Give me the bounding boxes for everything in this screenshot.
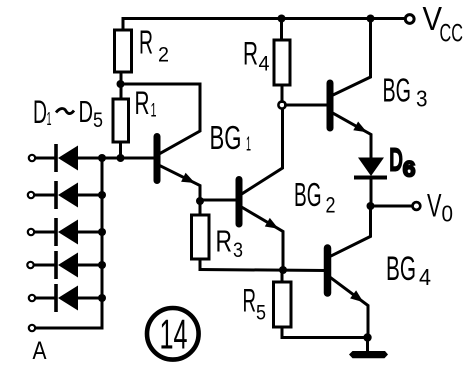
- label R2: [139, 23, 169, 66]
- resistor R4: [274, 19, 290, 102]
- wire Vo: [371, 205, 412, 208]
- svg-text:1: 1: [151, 101, 157, 122]
- label R3: [216, 224, 244, 263]
- label Vo: [427, 187, 453, 226]
- label R5: [243, 282, 267, 324]
- node ground: [363, 333, 371, 341]
- terminal Vo: [413, 202, 421, 210]
- svg-text:R: R: [243, 282, 257, 318]
- transistor BG1: [157, 137, 200, 200]
- svg-text:3: 3: [416, 86, 428, 112]
- svg-text:R: R: [243, 35, 258, 71]
- wire input A: [37, 327, 103, 330]
- svg-text:BG: BG: [210, 119, 242, 156]
- svg-text:CC: CC: [440, 20, 464, 48]
- transistor BG3: [330, 19, 371, 159]
- svg-text:6: 6: [403, 158, 415, 181]
- node BG3 collector rail: [367, 15, 375, 23]
- svg-text:4: 4: [419, 264, 431, 290]
- svg-text:2: 2: [326, 192, 336, 217]
- svg-text:1: 1: [47, 109, 52, 129]
- svg-text:BG: BG: [294, 176, 322, 213]
- svg-text:5: 5: [93, 109, 103, 132]
- svg-text:4: 4: [259, 53, 270, 76]
- wire BG1 base: [102, 157, 153, 160]
- node base left: [98, 154, 106, 162]
- label BG2: [294, 176, 336, 217]
- terminal Vcc: [405, 15, 414, 24]
- diode D1: [29, 146, 102, 171]
- svg-text:3: 3: [233, 239, 243, 262]
- svg-text:1: 1: [246, 133, 251, 155]
- label BG4: [386, 250, 431, 290]
- node BG1 emitter: [196, 197, 204, 205]
- label R1: [135, 85, 157, 122]
- resistor R2: [115, 30, 132, 72]
- wire R1 to base node: [119, 142, 122, 158]
- label D1~D5: [33, 94, 103, 132]
- label Vcc: [423, 0, 464, 48]
- svg-text:R: R: [216, 224, 233, 259]
- svg-text:2: 2: [158, 43, 169, 66]
- label R4: [243, 35, 270, 75]
- transistor BG4: [328, 206, 371, 336]
- wire BG3 base: [286, 104, 327, 107]
- wire BG1 emitter to BG2 base: [200, 199, 236, 202]
- node Vo: [367, 202, 375, 210]
- svg-text:D: D: [33, 94, 47, 130]
- node below R2: [117, 80, 125, 88]
- figure number circle 14: [147, 308, 199, 360]
- svg-text:R: R: [139, 23, 153, 60]
- diode D4: [27, 253, 106, 278]
- svg-text:5: 5: [256, 302, 266, 325]
- diode D6: [356, 158, 385, 205]
- diode D3: [28, 220, 106, 245]
- svg-text:D: D: [79, 94, 94, 129]
- node base right: [117, 154, 125, 162]
- resistor R3: [192, 201, 210, 270]
- wire ground stub: [366, 338, 369, 352]
- svg-text:14: 14: [160, 311, 188, 358]
- svg-text:BG: BG: [383, 72, 412, 109]
- diode D5: [29, 286, 106, 311]
- label D6: [390, 142, 416, 181]
- wire R3 bottom to BG4 base: [200, 270, 324, 271]
- svg-text:BG: BG: [386, 250, 416, 288]
- svg-text:A: A: [33, 337, 47, 365]
- node R4 top: [278, 15, 286, 23]
- label BG1: [210, 119, 252, 156]
- svg-text:R: R: [135, 85, 150, 121]
- svg-text:D: D: [390, 142, 403, 177]
- label BG3: [383, 72, 428, 112]
- node open circle R4/BG2/BG3: [278, 101, 285, 108]
- wire Vcc top rail: [123, 19, 404, 31]
- wire diode bus: [101, 158, 104, 328]
- resistor R5: [274, 270, 292, 338]
- wire collector feed BG1: [121, 84, 201, 154]
- wire R5 bottom to ground node: [282, 336, 368, 339]
- node R5/BG2 emitter: [279, 266, 287, 274]
- terminal input A: [29, 325, 35, 331]
- svg-text:V: V: [427, 187, 442, 223]
- transistor BG2: [239, 109, 283, 267]
- diode D2: [28, 183, 106, 208]
- resistor R1: [113, 99, 129, 142]
- wire R2 to R1: [120, 72, 123, 99]
- svg-text:0: 0: [442, 201, 454, 227]
- ground: [349, 351, 388, 358]
